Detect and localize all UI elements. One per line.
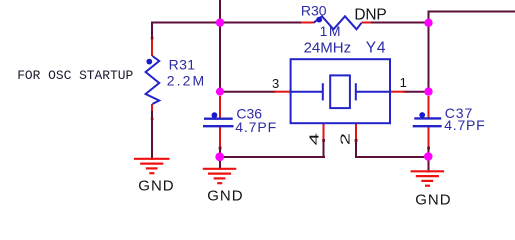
svg-text:Y4: Y4 — [366, 40, 387, 57]
svg-text:3: 3 — [272, 76, 279, 91]
svg-text:4.7PF: 4.7PF — [444, 117, 485, 133]
svg-text:4.7PF: 4.7PF — [235, 119, 277, 135]
svg-text:2: 2 — [338, 133, 352, 145]
svg-text:DNP: DNP — [354, 7, 386, 24]
svg-text:GND: GND — [415, 191, 451, 208]
svg-text:2.2M: 2.2M — [167, 73, 207, 89]
svg-text:FOR OSC STARTUP: FOR OSC STARTUP — [17, 68, 133, 83]
svg-text:4: 4 — [307, 133, 321, 145]
svg-text:R31: R31 — [169, 56, 196, 72]
svg-text:1: 1 — [400, 75, 407, 90]
svg-text:1M: 1M — [320, 23, 342, 39]
svg-text:GND: GND — [138, 178, 174, 195]
svg-text:24MHz: 24MHz — [304, 40, 352, 57]
svg-text:R30: R30 — [301, 2, 327, 18]
svg-text:GND: GND — [207, 187, 243, 204]
